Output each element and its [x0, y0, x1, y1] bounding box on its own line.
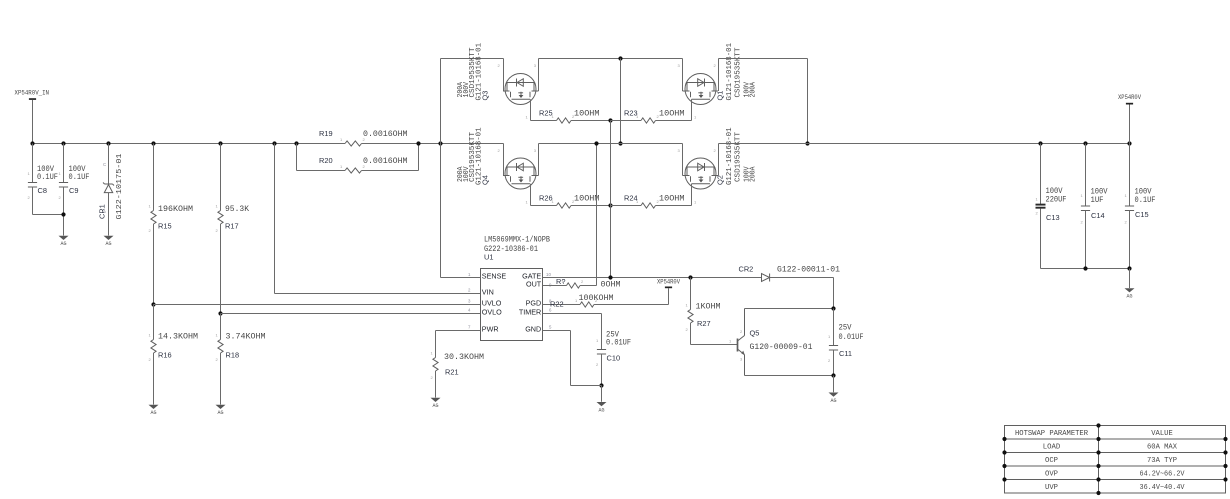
svg-text:UVLO: UVLO	[482, 298, 502, 307]
svg-text:10OHM: 10OHM	[574, 195, 600, 204]
resistor R23 10OHM	[611, 120, 642, 122]
wire SENSE pin	[441, 277, 481, 279]
svg-text:CSD19535KTT: CSD19535KTT	[735, 48, 743, 98]
svg-text:0.0016OHM: 0.0016OHM	[363, 157, 408, 166]
node OUT at bus	[594, 141, 598, 145]
ground AG under R16	[149, 405, 159, 409]
node R27 at GATE	[688, 275, 692, 279]
svg-text:60A MAX: 60A MAX	[1147, 444, 1178, 452]
svg-text:R17: R17	[225, 222, 239, 231]
wire CR2 cathode down	[833, 278, 835, 309]
wire top drain row left	[441, 58, 504, 60]
resistor R15 196KOHM	[151, 141, 155, 145]
resistor R19 0.0016OHM	[345, 141, 362, 146]
op-amp U1 LM5069MMX-1/NOPB	[481, 269, 543, 341]
node R20 branch left	[294, 141, 298, 145]
svg-text:0OHM: 0OHM	[601, 281, 621, 290]
svg-text:AG: AG	[1126, 294, 1132, 300]
svg-text:XP54R0V: XP54R0V	[1118, 94, 1141, 101]
svg-text:R?: R?	[556, 277, 565, 286]
node R20 branch right	[416, 141, 420, 145]
capacitor C9	[61, 141, 65, 145]
transistor Q5 G120-00009-01	[737, 339, 739, 352]
svg-text:AG: AG	[830, 398, 836, 404]
svg-text:73A TYP: 73A TYP	[1147, 457, 1177, 465]
node SENSE bus	[438, 141, 442, 145]
svg-text:200A: 200A	[750, 81, 758, 97]
ground AG under C11	[829, 393, 839, 397]
wire top source row	[539, 58, 683, 60]
svg-text:C11: C11	[839, 349, 852, 358]
ground AG under C10	[597, 402, 607, 406]
wire Q5 collector rail	[745, 308, 834, 310]
svg-text:LOAD: LOAD	[1043, 444, 1061, 452]
svg-text:AG: AG	[217, 410, 223, 416]
svg-text:XP54R0V: XP54R0V	[657, 278, 680, 285]
resistor R27 1KOHM	[690, 278, 692, 310]
wire left FET block vertical	[440, 59, 442, 278]
svg-text:C9: C9	[69, 186, 78, 195]
svg-text:R15: R15	[158, 222, 172, 231]
svg-text:0.01UF: 0.01UF	[606, 339, 631, 348]
svg-text:0.0016OHM: 0.0016OHM	[363, 130, 408, 139]
wire source column	[620, 59, 622, 144]
capacitor C14 1UF	[1083, 141, 1087, 145]
svg-text:Q3: Q3	[481, 91, 490, 101]
ground AG under C9	[59, 236, 69, 240]
resistor R26 10OHM	[531, 205, 557, 207]
node gate column mid	[608, 203, 612, 207]
svg-text:200A: 200A	[750, 166, 758, 182]
wire main input bus	[33, 143, 346, 145]
wire UVLO to U1	[154, 304, 481, 306]
wire mid source row	[539, 143, 683, 145]
node input bus at C8	[30, 141, 34, 145]
svg-text:R21: R21	[445, 368, 459, 377]
table hotswap parameters	[1005, 426, 1226, 494]
svg-text:OVP: OVP	[1045, 471, 1058, 479]
wire top drain row right	[719, 58, 808, 60]
svg-text:UVP: UVP	[1045, 484, 1058, 492]
svg-text:OVLO: OVLO	[482, 307, 502, 316]
svg-text:VALUE: VALUE	[1151, 430, 1173, 438]
node output bus right FET	[805, 141, 809, 145]
svg-text:G122-10175-01: G122-10175-01	[116, 154, 124, 220]
svg-text:10: 10	[546, 272, 551, 277]
wire GND pin	[543, 330, 571, 332]
svg-text:C13: C13	[1046, 213, 1060, 222]
svg-text:G121-10168-01: G121-10168-01	[726, 128, 734, 186]
diode CR2 G122-00011-01	[762, 274, 770, 282]
svg-text:R16: R16	[158, 351, 172, 360]
svg-text:LM5069MMX-1/NOPB: LM5069MMX-1/NOPB	[484, 235, 550, 245]
svg-text:CSD19535KTT: CSD19535KTT	[735, 132, 743, 182]
svg-text:10OHM: 10OHM	[659, 195, 685, 204]
wire gate column	[610, 121, 612, 278]
wire GATE pin	[543, 277, 762, 279]
svg-text:G121-10168-01: G121-10168-01	[726, 43, 734, 101]
wire input flag to bus	[32, 100, 34, 144]
svg-text:C8: C8	[38, 186, 47, 195]
resistor R21 30.3KOHM	[436, 330, 481, 332]
svg-text:Q4: Q4	[481, 175, 490, 185]
svg-text:C15: C15	[1135, 210, 1149, 219]
svg-text:R26: R26	[539, 194, 553, 203]
node UVLO divider	[151, 302, 155, 306]
svg-text:OCP: OCP	[1045, 457, 1058, 465]
svg-text:10OHM: 10OHM	[574, 110, 600, 119]
svg-text:G122-00011-01: G122-00011-01	[777, 266, 840, 275]
resistor R16 14.3KOHM	[153, 305, 155, 340]
svg-text:0.1UF: 0.1UF	[69, 173, 90, 182]
svg-text:C14: C14	[1091, 211, 1105, 220]
svg-text:AG: AG	[150, 410, 156, 416]
svg-text:1KOHM: 1KOHM	[696, 303, 721, 312]
svg-text:GND: GND	[525, 324, 541, 333]
svg-text:R20: R20	[319, 156, 333, 165]
svg-text:SENSE: SENSE	[482, 271, 507, 280]
wire TIMER pin	[543, 313, 602, 315]
svg-text:AG: AG	[598, 407, 604, 413]
svg-text:AG: AG	[105, 241, 111, 247]
svg-text:64.2V~66.2V: 64.2V~66.2V	[1140, 471, 1186, 479]
ground AG under CR1	[104, 236, 114, 240]
transistor Q2 CSD19535KTT	[682, 144, 684, 176]
svg-text:R22: R22	[550, 300, 564, 309]
node OVLO divider	[218, 311, 222, 315]
resistor R24 10OHM	[611, 205, 642, 207]
svg-text:R23: R23	[624, 109, 638, 118]
wire output bus	[719, 143, 1130, 145]
svg-text:R25: R25	[539, 109, 553, 118]
svg-text:14.3KOHM: 14.3KOHM	[158, 333, 198, 342]
capacitor C11 0.01UF	[833, 309, 835, 346]
transistor Q4 CSD19535KTT	[503, 144, 505, 176]
resistor R? 0OHM on OUT	[543, 285, 567, 287]
power flag XP54R0V mid	[668, 288, 670, 304]
svg-text:R18: R18	[226, 351, 240, 360]
transistor Q1 CSD19535KTT	[682, 59, 684, 92]
svg-text:TIMER: TIMER	[519, 307, 541, 316]
wire output caps bottom rail	[1041, 268, 1130, 270]
node gate column at GATE	[608, 275, 612, 279]
svg-text:25V: 25V	[839, 324, 852, 333]
svg-text:U1: U1	[484, 253, 493, 262]
svg-text:C10: C10	[607, 354, 621, 363]
svg-text:G120-00009-01: G120-00009-01	[750, 343, 813, 352]
capacitor C15 0.1UF	[1127, 141, 1131, 145]
svg-text:VIN: VIN	[482, 287, 494, 296]
svg-text:AG: AG	[60, 241, 66, 247]
diode CR1 G122-10175-01	[106, 141, 110, 145]
svg-text:0.1UF: 0.1UF	[37, 173, 58, 182]
resistor R20 0.0016OHM	[296, 144, 298, 171]
svg-text:Q2: Q2	[716, 175, 725, 185]
wire VIN to U1	[274, 144, 276, 294]
node C11 bottom	[831, 373, 835, 377]
svg-text:HOTSWAP PARAMETER: HOTSWAP PARAMETER	[1015, 430, 1089, 438]
resistor R17 95.3K	[218, 141, 222, 145]
ground AG output	[1129, 269, 1131, 289]
svg-text:196KOHM: 196KOHM	[158, 205, 193, 214]
svg-text:R24: R24	[624, 194, 638, 203]
transistor Q3 CSD19535KTT	[503, 59, 505, 92]
svg-text:3.74KOHM: 3.74KOHM	[226, 333, 266, 342]
svg-text:1UF: 1UF	[1091, 196, 1104, 205]
svg-text:95.3K: 95.3K	[225, 205, 249, 214]
node source column bus	[618, 141, 622, 145]
wire OVLO to U1	[221, 313, 481, 315]
node gate column top	[608, 118, 612, 122]
svg-text:0.1UF: 0.1UF	[1135, 196, 1156, 205]
capacitor C13 220UF	[1038, 141, 1042, 145]
svg-text:OUT: OUT	[526, 279, 542, 288]
resistor R22 100KOHM	[543, 304, 581, 306]
svg-text:100KOHM: 100KOHM	[579, 294, 614, 303]
node source column top	[618, 56, 622, 60]
svg-text:R19: R19	[319, 129, 333, 138]
capacitor C8	[32, 144, 34, 183]
wire right FET block vertical	[807, 59, 809, 144]
node Q5 collector C11	[831, 306, 835, 310]
resistor R25 10OHM	[531, 120, 557, 122]
resistor R18 3.74KOHM	[220, 314, 222, 340]
svg-text:0.01UF: 0.01UF	[839, 333, 864, 342]
svg-text:30.3KOHM: 30.3KOHM	[444, 353, 484, 362]
svg-text:CR1: CR1	[98, 204, 107, 219]
svg-text:Q5: Q5	[750, 329, 760, 338]
ground AG under R21	[431, 398, 441, 402]
ground AG under R18	[216, 405, 226, 409]
power flag XP54R0V output	[1129, 105, 1131, 144]
node C10 GND	[599, 383, 603, 387]
svg-text:AG: AG	[432, 403, 438, 409]
capacitor C10 0.01UF	[597, 349, 606, 351]
svg-text:XP54R0V_IN: XP54R0V_IN	[15, 90, 50, 97]
svg-text:Q1: Q1	[716, 91, 725, 101]
svg-text:PWR: PWR	[482, 324, 499, 333]
svg-text:36.4V~40.4V: 36.4V~40.4V	[1140, 484, 1186, 492]
svg-text:CR2: CR2	[739, 265, 754, 274]
svg-text:220UF: 220UF	[1046, 196, 1067, 205]
svg-text:PGD: PGD	[526, 298, 542, 307]
svg-text:C: C	[103, 162, 106, 167]
svg-text:R27: R27	[697, 319, 711, 328]
node VIN tap	[272, 141, 276, 145]
svg-text:10OHM: 10OHM	[659, 110, 685, 119]
wire Q5 emitter rail	[745, 375, 834, 377]
